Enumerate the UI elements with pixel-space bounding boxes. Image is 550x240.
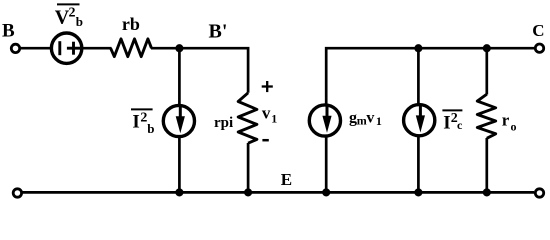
svg-text:1: 1 xyxy=(271,111,277,125)
noise current source I2c xyxy=(404,104,435,136)
controlled source gmv1 xyxy=(309,105,340,137)
terminal bottom-left xyxy=(13,189,21,197)
wire B to Vb source xyxy=(20,47,51,50)
svg-text:I: I xyxy=(443,112,450,133)
wire rb to B' corner xyxy=(151,48,248,93)
svg-text:o: o xyxy=(511,119,517,133)
junction dot ro-bottom xyxy=(483,188,491,196)
svg-text:v: v xyxy=(366,110,374,127)
svg-text:C: C xyxy=(532,21,544,40)
label I2c (overline) xyxy=(442,110,463,133)
junction dot gmv1-bottom xyxy=(322,188,330,196)
label ro xyxy=(502,110,517,133)
svg-text:1: 1 xyxy=(376,114,382,128)
junction dot Ic-bottom xyxy=(414,188,422,196)
svg-text:c: c xyxy=(457,118,463,132)
terminal B xyxy=(11,44,19,52)
terminal bottom-right xyxy=(535,189,543,197)
noise voltage source V2b xyxy=(51,33,81,63)
svg-text:rb: rb xyxy=(122,14,140,34)
svg-text:B: B xyxy=(2,20,15,41)
wire ro to bottom rail xyxy=(485,138,488,192)
wire Ic to bottom rail xyxy=(417,136,420,193)
svg-text:m: m xyxy=(357,113,367,127)
label I2b (overline) xyxy=(131,109,155,135)
svg-text:g: g xyxy=(349,110,357,127)
svg-text:b: b xyxy=(76,14,83,29)
wire Ic top xyxy=(417,48,420,105)
svg-text:rpi: rpi xyxy=(214,115,233,131)
svg-text:E: E xyxy=(281,170,292,189)
junction dot ro-top xyxy=(483,44,491,52)
junction dot at B' node xyxy=(175,44,183,52)
svg-text:2: 2 xyxy=(69,6,76,21)
wire rpi to bottom rail xyxy=(247,143,250,192)
svg-text:b: b xyxy=(147,121,154,136)
wire ro top xyxy=(485,48,488,94)
junction dot Ib-bottom xyxy=(175,188,183,196)
label gmv1 xyxy=(349,110,382,129)
terminal C xyxy=(535,44,543,52)
wire B' node down to Ib source xyxy=(178,48,181,106)
svg-text:I: I xyxy=(132,112,139,133)
svg-text:v: v xyxy=(262,103,271,122)
label v1 xyxy=(262,103,277,125)
junction dot Ic-top xyxy=(414,44,422,52)
noise current source I2b xyxy=(163,105,194,137)
wire top-right rail with corner to gmv1 xyxy=(326,48,534,105)
resistor rpi xyxy=(238,93,257,143)
label - (v1 polarity) xyxy=(262,139,268,142)
wire gmv1 to bottom rail xyxy=(325,136,328,192)
junction dot rpi-bottom xyxy=(244,188,252,196)
wire Vb to rb xyxy=(83,47,112,50)
svg-text:r: r xyxy=(502,110,510,129)
bottom rail wire E xyxy=(22,191,534,194)
label V2b (overline) xyxy=(55,4,83,29)
wire Ib source to bottom rail xyxy=(178,136,181,192)
resistor rb xyxy=(111,39,152,57)
svg-text:B': B' xyxy=(209,21,228,43)
label + (v1 polarity) xyxy=(262,81,273,92)
resistor ro xyxy=(477,94,495,138)
